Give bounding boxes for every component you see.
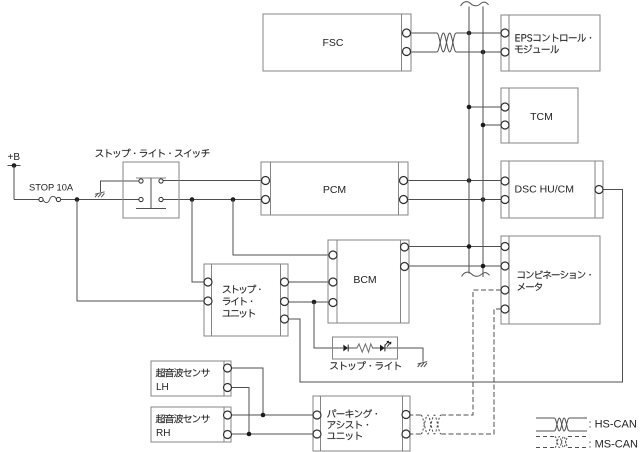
- wire: [289, 281, 330, 283]
- module ultrasonic sensor LH: [151, 361, 232, 396]
- module TCM: [501, 88, 578, 143]
- wire: [410, 414, 421, 416]
- wire: [163, 180, 261, 182]
- stop light assembly box: [333, 337, 398, 359]
- bus HS-CAN line 1: [468, 7, 470, 274]
- svg-text:+B: +B: [8, 152, 21, 163]
- ground: [95, 192, 105, 197]
- wire: [469, 106, 501, 108]
- junction: [231, 197, 236, 202]
- label +B: [8, 152, 21, 163]
- junction: [481, 123, 486, 128]
- wire: [232, 368, 264, 415]
- svg-text:FSC: FSC: [323, 37, 344, 49]
- legend HS-CAN label: [589, 419, 637, 431]
- junction: [247, 432, 252, 437]
- switch S1 stop light switch: [123, 162, 179, 218]
- wire: [61, 199, 139, 201]
- junction: [261, 413, 266, 418]
- svg-text:BCM: BCM: [353, 274, 376, 286]
- diode D1: [343, 345, 348, 352]
- junction: [467, 244, 472, 249]
- svg-text:TCM: TCM: [530, 111, 553, 123]
- ground: [418, 362, 428, 367]
- junction: [467, 178, 472, 183]
- svg-text:: HS-CAN: : HS-CAN: [589, 419, 637, 431]
- wire: [14, 199, 39, 201]
- LED D2: [380, 341, 391, 351]
- svg-text:: MS-CAN: : MS-CAN: [589, 439, 639, 451]
- junction: [467, 31, 472, 36]
- wire: [410, 433, 421, 435]
- label STOP 10A: [29, 183, 74, 193]
- bus break bottom: [462, 272, 490, 276]
- wire: [409, 265, 502, 267]
- bus break top: [461, 2, 489, 6]
- svg-text:LH: LH: [156, 382, 169, 393]
- wire: [13, 166, 15, 200]
- wire: [385, 348, 423, 362]
- module PCM: [261, 162, 408, 215]
- twisted pair: [437, 33, 456, 52]
- junction: [481, 264, 486, 269]
- wire: [349, 347, 358, 349]
- bus HS-CAN line 2: [482, 7, 484, 278]
- junction: [467, 105, 472, 110]
- wire: [289, 301, 330, 303]
- wire: [101, 181, 139, 192]
- legend MS-CAN symbol: [536, 437, 587, 448]
- wire: [233, 200, 329, 256]
- module stop light unit: [204, 264, 289, 336]
- junction: [481, 50, 486, 55]
- wire: [441, 309, 501, 434]
- wire: [77, 200, 204, 302]
- wire: [456, 51, 501, 53]
- label stop light: [330, 361, 401, 370]
- svg-text:PCM: PCM: [323, 184, 346, 196]
- fuse STOP 10A: [39, 196, 61, 202]
- label stop light switch: [96, 149, 210, 158]
- junction: [481, 197, 486, 202]
- resistor R1: [357, 344, 373, 352]
- wire: [411, 32, 438, 34]
- wire: [408, 180, 502, 182]
- wire: [456, 32, 501, 34]
- junction: [312, 300, 317, 305]
- wire: [192, 200, 204, 283]
- wire: [289, 190, 623, 383]
- module parking assist unit: [313, 396, 410, 451]
- svg-text:STOP 10A: STOP 10A: [29, 183, 74, 193]
- wire: [163, 199, 261, 201]
- module DSC HU/CM: [501, 161, 603, 218]
- twisted pair: [421, 415, 441, 434]
- wire: [408, 199, 502, 201]
- wire: [411, 51, 438, 53]
- module ultrasonic sensor RH: [151, 407, 232, 442]
- wire: [372, 347, 380, 349]
- wire: [232, 414, 314, 416]
- wire: [232, 433, 314, 435]
- junction: [75, 197, 80, 202]
- svg-text:RH: RH: [156, 428, 170, 439]
- legend MS-CAN label: [589, 439, 639, 451]
- svg-text:DSC HU/CM: DSC HU/CM: [515, 184, 575, 196]
- junction: [190, 197, 195, 202]
- power +B terminal: [8, 163, 21, 168]
- module FSC: [263, 14, 411, 71]
- module combination meter: [501, 236, 600, 324]
- wire: [232, 388, 250, 435]
- wire: [409, 246, 502, 248]
- wire: [483, 124, 501, 126]
- module BCM: [328, 240, 409, 323]
- wire: [441, 290, 501, 415]
- legend HS-CAN symbol: [536, 418, 587, 431]
- module EPS control module: [501, 15, 600, 71]
- wire: [314, 302, 343, 348]
